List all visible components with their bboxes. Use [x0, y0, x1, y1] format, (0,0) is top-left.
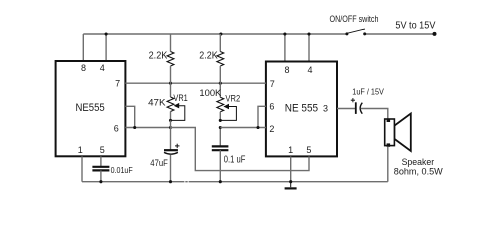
switch S1 ON/OFF	[345, 29, 366, 35]
junction dot node timing U2	[219, 126, 222, 129]
pin 8 label U1	[81, 63, 86, 73]
wire ground rail	[82, 181, 388, 183]
svg-text:0.1 uF: 0.1 uF	[224, 155, 246, 166]
potentiometer VR2 100K	[217, 83, 224, 120]
svg-text:5: 5	[306, 145, 311, 155]
pin 4 label U2	[307, 65, 312, 75]
wire speaker to ground rail	[387, 147, 389, 182]
svg-text:5V to 15V: 5V to 15V	[395, 20, 435, 31]
svg-text:7: 7	[115, 78, 120, 88]
label R2 2.2K	[199, 50, 218, 61]
svg-text:2.2K: 2.2K	[149, 50, 168, 61]
capacitor C2 0.1uF	[212, 128, 229, 182]
label U2 NE 555	[285, 103, 318, 115]
svg-text:5: 5	[100, 145, 105, 155]
svg-text:8: 8	[284, 65, 289, 75]
terminal dot 5V supply	[433, 32, 437, 36]
junction dot U2 pin8 rail	[283, 32, 286, 35]
pin 1 label U1	[78, 145, 83, 155]
svg-text:6: 6	[114, 123, 119, 133]
wire riser U2 pin 8	[284, 34, 286, 62]
label U1 NE555	[76, 102, 105, 114]
wire U2 pin1 riser	[290, 156, 292, 181]
svg-text:ON/OFF switch: ON/OFF switch	[330, 14, 379, 24]
junction dot U2 pin4 rail	[307, 32, 310, 35]
label 47uF	[150, 158, 168, 169]
svg-text:2: 2	[269, 124, 274, 134]
resistor R2 2.2K	[217, 34, 224, 83]
op-amp U2 NE555 body	[266, 62, 337, 157]
svg-text:8: 8	[81, 63, 86, 73]
label Speaker	[402, 157, 435, 167]
wire node to C1 top	[170, 120, 172, 149]
svg-text:100K: 100K	[199, 88, 221, 98]
pin 8 label U2	[284, 65, 289, 75]
svg-text:VR1: VR1	[173, 93, 187, 104]
op-amp U1 NE555 body	[56, 61, 126, 156]
label 0.1 uF	[224, 155, 246, 166]
junction dot C3 ground	[99, 180, 102, 183]
junction dot node timing U1	[169, 126, 172, 129]
pin 5 label U2	[306, 145, 311, 155]
junction dot U1 pin2/pin6	[133, 126, 136, 129]
wire U2 pin6 stub	[258, 106, 266, 127]
wire U2 pin2 line	[220, 127, 266, 129]
label ON/OFF switch	[330, 14, 379, 24]
wire riser U2 pin 4	[308, 34, 310, 62]
pin 6 label U2	[269, 102, 274, 112]
label R1 2.2K	[149, 50, 168, 61]
wiper arrow VR2	[220, 104, 236, 121]
svg-text:4: 4	[100, 63, 105, 73]
junction dot C1 ground	[169, 180, 172, 183]
junction dot VR1 wiper node	[169, 119, 172, 122]
svg-text:Speaker: Speaker	[402, 157, 435, 167]
label 100K	[199, 88, 221, 98]
pin 7 label U2	[270, 79, 275, 89]
pin 4 label U1	[100, 63, 105, 73]
capacitor C4 1uF/15V	[351, 98, 363, 114]
junction dot node R1/VR1	[169, 82, 172, 85]
svg-text:1: 1	[78, 145, 83, 155]
wire U2 pin3 output	[337, 108, 355, 110]
pin 5 label U1	[100, 145, 105, 155]
svg-text:8ohm, 0.5W: 8ohm, 0.5W	[394, 167, 443, 177]
junction dot R2 rail	[219, 32, 222, 35]
label VR1	[173, 93, 187, 104]
wire riser U1 pin 4	[105, 34, 107, 61]
svg-text:4: 4	[307, 65, 312, 75]
junction dot U1 pin4 rail	[105, 32, 108, 35]
ground symbol	[285, 182, 297, 189]
svg-text:7: 7	[270, 79, 275, 89]
svg-text:47uF: 47uF	[150, 158, 168, 169]
junction dot node R2/VR2	[219, 82, 222, 85]
label 8ohm, 0.5W	[394, 167, 443, 177]
svg-text:0.01uF: 0.01uF	[111, 166, 133, 175]
wire riser U1 pin 8	[82, 34, 84, 61]
label 47K	[148, 98, 166, 109]
resistor R1 2.2K	[167, 34, 174, 83]
svg-text:NE 555: NE 555	[285, 103, 318, 115]
wire C4 to speaker	[361, 109, 388, 120]
svg-text:1uF / 15V: 1uF / 15V	[352, 87, 384, 97]
label 1uF / 15V	[352, 87, 384, 97]
wire U1 pin1 riser	[81, 156, 83, 181]
svg-text:6: 6	[269, 102, 274, 112]
wiper arrow VR1	[171, 103, 185, 121]
label 5V to 15V	[395, 20, 435, 31]
svg-text:1: 1	[288, 145, 293, 155]
junction dot C2 ground	[219, 180, 222, 183]
wire U1 pin2 stub	[125, 106, 134, 127]
pin 2 label U2	[269, 124, 274, 134]
pin 6 label U1	[114, 123, 119, 133]
svg-text:VR2: VR2	[225, 93, 240, 104]
svg-text:3: 3	[323, 104, 328, 114]
label VR2	[225, 93, 240, 104]
svg-text:2.2K: 2.2K	[199, 50, 218, 61]
wire V+ top rail right segment	[365, 33, 435, 35]
pin 7 label U1	[115, 78, 120, 88]
wire U1 pin6 line	[125, 127, 170, 129]
label 0.01uF	[111, 166, 133, 175]
pin 1 label U2	[288, 145, 293, 155]
wire V+ top rail left segment	[83, 33, 346, 35]
svg-text:NE555: NE555	[76, 102, 105, 114]
capacitor C3 0.01uF	[92, 156, 109, 181]
wire discharge line pin7 U1 to pin7 U2	[125, 82, 266, 84]
junction dot U2 pin1 ground	[289, 180, 292, 183]
svg-text:47K: 47K	[148, 98, 166, 109]
potentiometer VR1 47K	[167, 83, 174, 120]
speaker LS1	[385, 114, 411, 152]
pin 3 label U2	[323, 104, 328, 114]
wire modulation line to U2 pin5	[171, 128, 310, 171]
junction dot U2 pin2/pin6	[256, 126, 259, 129]
capacitor C1 47uF	[164, 144, 180, 182]
junction dot VR2 wiper node	[219, 119, 222, 122]
